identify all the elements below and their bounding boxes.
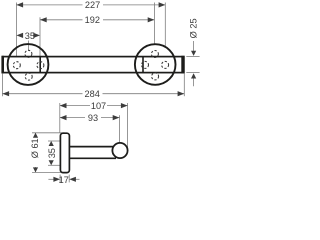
hook ball end <box>112 143 127 158</box>
extension line flange top (d61) <box>32 132 65 134</box>
left flange cone junction <box>39 57 41 73</box>
svg-text:17: 17 <box>59 175 69 185</box>
extension line left inner (x=40) <box>39 17 41 56</box>
dimension 17 <box>48 177 79 182</box>
svg-text:35: 35 <box>25 31 35 41</box>
extension line plate bottom (35) <box>48 164 60 166</box>
grab bar tube <box>3 57 184 73</box>
svg-text:227: 227 <box>85 0 100 10</box>
right flange cone junction <box>142 57 144 73</box>
svg-text:107: 107 <box>91 101 106 111</box>
right flange screw hole S <box>152 73 159 80</box>
svg-text:192: 192 <box>85 15 100 25</box>
left flange N hole centerline <box>27 41 29 51</box>
dimension 93 line <box>60 115 120 120</box>
extension line left outer (x=16) <box>15 3 17 62</box>
svg-text:35: 35 <box>47 148 57 158</box>
extension line right inner (x=154.4) <box>153 3 155 45</box>
extension line bar left end <box>1 74 3 97</box>
dimension 35 vertical <box>49 141 54 165</box>
extension line plate top (35) <box>48 140 60 142</box>
extension line flange right below <box>68 175 70 183</box>
left flange screw hole S <box>25 73 32 80</box>
extension line right outer (x=165.3) <box>164 3 166 48</box>
extension line bar right end <box>183 74 185 97</box>
extension line ball right <box>127 103 129 148</box>
right flange screw hole W <box>142 61 149 68</box>
hook arm top edge <box>69 146 114 148</box>
dimension 107 line <box>60 103 128 108</box>
extension line flange bottom (d61) <box>32 171 65 173</box>
hook flange disc side view <box>60 133 69 172</box>
right flange circle <box>135 44 176 85</box>
bar right end cap <box>181 56 184 74</box>
dimension 35 arrows <box>16 33 40 38</box>
extension line flange left below <box>59 175 61 183</box>
bar left end cap <box>1 56 4 74</box>
extension line ball center <box>119 115 121 142</box>
right flange screw hole E <box>162 61 169 68</box>
diameter 61 dimension <box>33 133 38 173</box>
right flange screw hole N <box>151 51 158 58</box>
diameter 25 arrow up <box>191 73 196 86</box>
left flange screw hole W <box>13 62 20 69</box>
svg-text:Ø 61: Ø 61 <box>30 138 40 158</box>
extension line bar bottom right <box>186 72 199 74</box>
hook arm bottom edge <box>69 157 116 159</box>
dimension 284 line <box>2 91 184 96</box>
extension line wall face <box>59 103 61 133</box>
dimension 192 line <box>40 17 154 22</box>
dimension 227 line <box>16 2 165 7</box>
diameter 25 arrow down <box>191 41 196 56</box>
svg-text:Ø 25: Ø 25 <box>189 18 199 38</box>
left flange circle <box>8 44 49 85</box>
extension line bar top right <box>186 56 199 58</box>
svg-text:93: 93 <box>88 113 98 123</box>
left flange screw hole E <box>37 62 44 69</box>
left flange screw hole N <box>25 50 32 57</box>
svg-text:284: 284 <box>85 89 100 99</box>
